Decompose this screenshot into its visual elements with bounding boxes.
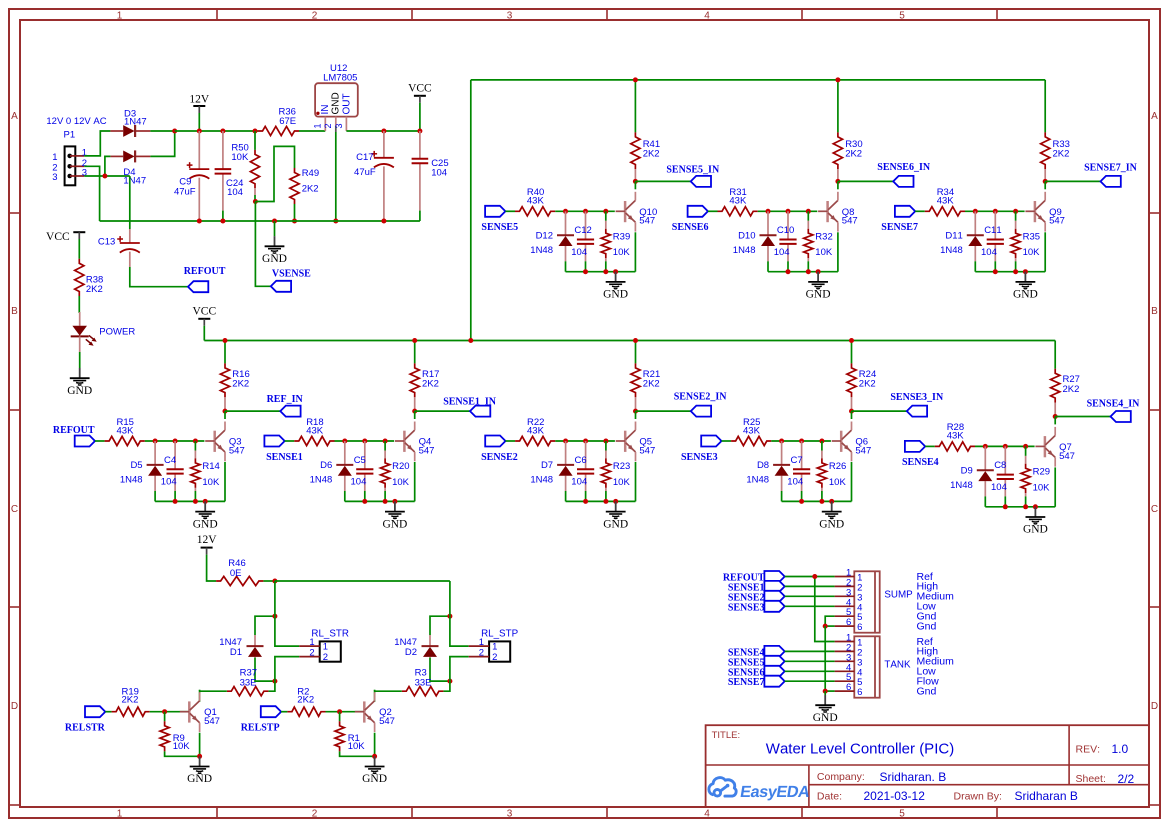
capacitor C7 (787, 441, 810, 501)
svg-text:2K2: 2K2 (297, 695, 314, 706)
junction diode (342, 439, 347, 444)
svg-text:SENSE3: SENSE3 (728, 602, 765, 613)
junction pin3/D4 (102, 174, 107, 179)
transistor Q2 (355, 692, 395, 732)
junction bias bottom (1023, 504, 1028, 509)
svg-text:C8: C8 (994, 460, 1006, 471)
svg-text:SENSE5: SENSE5 (481, 222, 518, 233)
junction bias bottom (193, 499, 198, 504)
svg-text:GND: GND (813, 712, 838, 724)
svg-text:EasyEDA: EasyEDA (739, 783, 812, 801)
resistor R27 (1051, 369, 1080, 417)
junction cap bottom (173, 499, 178, 504)
junction bias resistor (193, 439, 198, 444)
svg-text:43K: 43K (527, 425, 545, 436)
svg-text:104: 104 (774, 247, 790, 258)
net flag SENSE3_IN (890, 392, 944, 416)
wire flag to R19 (105, 711, 111, 713)
wire Q5 collector (635, 411, 637, 419)
svg-text:Gnd: Gnd (917, 620, 937, 632)
junction top bus R30 (835, 77, 840, 82)
junction R16 bottom (223, 409, 228, 414)
resistor R3 (402, 668, 444, 696)
wire SENSE5 to pin (785, 660, 835, 662)
resistor R22 (515, 417, 555, 446)
svg-text:43K: 43K (117, 425, 135, 436)
wire emitter bottom net (566, 271, 636, 273)
capacitor C9 (174, 131, 209, 221)
diode D5 (120, 441, 164, 501)
svg-text:GND: GND (1023, 524, 1048, 536)
wire D4 cathode riser (150, 131, 174, 156)
wire emitter bottom net (345, 500, 415, 502)
resistor R31 (718, 187, 758, 216)
ground GND Q5 (603, 501, 628, 530)
svg-text:REFOUT: REFOUT (53, 425, 95, 436)
svg-text:2: 2 (323, 652, 328, 663)
wire Q4 emitter (414, 462, 416, 501)
diode D3 (110, 109, 150, 138)
wire Q10 emitter (634, 232, 636, 271)
junction D1 top (272, 614, 277, 619)
wire D2 bottom (430, 668, 450, 681)
svg-text:547: 547 (842, 216, 858, 227)
svg-text:3: 3 (334, 124, 344, 129)
svg-text:REV:: REV: (1076, 743, 1101, 755)
resistor R14 (191, 441, 220, 501)
svg-text:67E: 67E (279, 116, 296, 127)
svg-text:1N47: 1N47 (124, 117, 147, 128)
wire R38 to LED (78, 296, 80, 313)
resistor R50 (231, 131, 259, 202)
wire base net (145, 440, 205, 442)
svg-text:D1: D1 (230, 647, 242, 658)
junction gnd stem (816, 269, 821, 274)
junction bias resistor (806, 209, 811, 214)
svg-text:33E: 33E (415, 677, 432, 688)
wire emitter bottom net (975, 271, 1045, 273)
svg-text:2K2: 2K2 (1063, 384, 1080, 395)
svg-text:D7: D7 (541, 460, 553, 471)
junction bias bottom (1013, 269, 1018, 274)
svg-text:1.0: 1.0 (1112, 742, 1129, 756)
svg-text:C4: C4 (164, 455, 176, 466)
svg-text:6: 6 (846, 617, 851, 628)
junction ref net (812, 574, 817, 579)
net flag SENSE3 connector-side (728, 601, 785, 614)
wire P1 pin2 to GND bus (84, 166, 99, 221)
junction bias resistor (603, 209, 608, 214)
svg-text:TITLE:: TITLE: (712, 730, 741, 741)
svg-text:RELSTR: RELSTR (65, 723, 106, 734)
svg-text:547: 547 (855, 445, 871, 456)
svg-text:LM7805: LM7805 (323, 73, 357, 84)
junction R24 bottom (849, 409, 854, 414)
transistor Q5 (616, 422, 656, 462)
svg-text:547: 547 (419, 445, 435, 456)
svg-text:104: 104 (571, 477, 587, 488)
svg-text:43K: 43K (743, 425, 761, 436)
svg-text:C11: C11 (984, 225, 1001, 236)
svg-text:SENSE4_IN: SENSE4_IN (1087, 399, 1141, 410)
svg-text:1: 1 (492, 642, 497, 653)
junction R17 bottom (412, 409, 417, 414)
svg-text:C: C (1151, 504, 1158, 515)
wire SENSE7 to pin (785, 680, 835, 682)
wire R16 top (224, 341, 226, 364)
ground GND led (67, 368, 92, 397)
wire relay top rail (275, 580, 450, 582)
svg-text:D: D (11, 701, 18, 712)
svg-text:SENSE7_IN: SENSE7_IN (1084, 163, 1138, 174)
svg-text:C12: C12 (574, 225, 591, 236)
connector SUMP (835, 568, 954, 634)
junction bus R16 (223, 338, 228, 343)
junction R30 bottom (835, 179, 840, 184)
wire flag to R31 (708, 210, 718, 212)
svg-text:C7: C7 (791, 455, 803, 466)
net flag RELSTR (65, 706, 106, 733)
svg-text:SENSE6_IN: SENSE6_IN (877, 162, 931, 173)
net flag SENSE6 connector-side (728, 666, 785, 679)
wire emitter bottom net (155, 500, 225, 502)
wire VSENSE drop (255, 202, 270, 287)
svg-text:10K: 10K (815, 247, 833, 258)
svg-text:Date:: Date: (817, 790, 842, 802)
svg-text:D8: D8 (757, 460, 769, 471)
capacitor C6 (571, 441, 594, 501)
junction D2 bottom (447, 679, 452, 684)
svg-text:12V: 12V (189, 94, 210, 106)
svg-text:12V 0 12V AC: 12V 0 12V AC (46, 116, 106, 127)
wire base net (335, 440, 395, 442)
wire Q10 collector (634, 181, 636, 189)
resistor R30 (833, 132, 862, 181)
transistor Q7 (1035, 427, 1075, 467)
junction C24 top (253, 129, 258, 134)
svg-text:10K: 10K (348, 741, 366, 752)
svg-text:D6: D6 (320, 460, 332, 471)
junction R46 out (272, 579, 277, 584)
resistor R26 (817, 441, 846, 501)
svg-text:104: 104 (787, 477, 803, 488)
junction gnd stem (613, 499, 618, 504)
svg-text:B: B (11, 306, 18, 317)
svg-text:4: 4 (704, 808, 710, 819)
junction cap (786, 209, 791, 214)
junction gnd tank (823, 689, 828, 694)
ground GND power-supply (262, 221, 287, 265)
junction R50 bottom / VSENSE node (253, 199, 258, 204)
resistor R49 (290, 168, 319, 221)
svg-text:547: 547 (1049, 216, 1065, 227)
svg-text:R20: R20 (392, 461, 409, 472)
wire R30 top (837, 80, 839, 132)
svg-text:2: 2 (312, 10, 318, 21)
net flag SENSE7 (881, 206, 918, 233)
svg-text:33E: 33E (240, 677, 257, 688)
svg-text:1: 1 (117, 10, 123, 21)
net flag SENSE2_IN (674, 392, 728, 417)
svg-text:43K: 43K (729, 196, 747, 207)
net flag SENSE7_IN (1084, 163, 1138, 187)
svg-text:SENSE1_IN: SENSE1_IN (443, 397, 497, 408)
svg-text:6: 6 (857, 687, 862, 698)
junction diode (983, 444, 988, 449)
net flag REFOUT (53, 425, 95, 447)
net flag SENSE6 (672, 206, 709, 233)
svg-text:12V: 12V (197, 534, 218, 546)
svg-text:D11: D11 (945, 230, 962, 241)
ground GND Q4 (382, 501, 407, 530)
svg-text:547: 547 (1059, 451, 1075, 462)
svg-text:2/2: 2/2 (1118, 772, 1135, 786)
svg-text:SENSE7: SENSE7 (881, 222, 918, 233)
junction C17 top (381, 129, 386, 134)
junction bias resistor (819, 439, 824, 444)
svg-text:2K2: 2K2 (422, 378, 439, 389)
wire SENSE4 to pin (785, 650, 835, 652)
svg-text:547: 547 (639, 445, 655, 456)
svg-text:Sridharan B: Sridharan B (1015, 789, 1078, 803)
svg-text:A: A (11, 111, 18, 122)
junction emitter Q1 (197, 754, 202, 759)
resistor R19 (112, 686, 150, 716)
connector RL_STR (299, 629, 349, 664)
wire flag to R34 (915, 210, 925, 212)
svg-text:D5: D5 (130, 460, 142, 471)
wire U12 OUT to VCC (346, 130, 420, 132)
ground GND Q1 (187, 756, 212, 785)
junction GND symbol (272, 219, 277, 224)
ground GND Q9 (1013, 272, 1038, 301)
junction cap (993, 209, 998, 214)
wire to flag SENSE6_IN (838, 180, 893, 182)
wire emitter bottom net (768, 271, 838, 273)
svg-text:SENSE2_IN: SENSE2_IN (674, 392, 728, 403)
junction diode (766, 209, 771, 214)
wire flag to R2 (281, 711, 287, 713)
junction cap bottom (583, 269, 588, 274)
wire SUMP pin6 gnd (825, 625, 834, 627)
capacitor C4 (161, 441, 184, 501)
svg-text:43K: 43K (947, 431, 965, 442)
junction emitter Q2 (372, 754, 377, 759)
net flag SENSE5 (481, 206, 518, 233)
wire base net (555, 210, 615, 212)
junction bias bottom (603, 499, 608, 504)
junction R33 bottom (1043, 179, 1048, 184)
resistor R29 (1021, 446, 1050, 506)
transistor Q4 (395, 422, 435, 462)
junction bias resistor (383, 439, 388, 444)
capacitor C11 (981, 211, 1004, 271)
svg-text:D: D (1151, 701, 1158, 712)
wire SENSE1 to pin (785, 585, 835, 587)
svg-text:0E: 0E (230, 568, 242, 579)
net flag SENSE2 connector-side (728, 591, 785, 604)
svg-text:Water Level Controller (PIC): Water Level Controller (PIC) (766, 740, 954, 757)
svg-text:10K: 10K (829, 477, 847, 488)
wire flag to R28 (925, 445, 935, 447)
svg-text:6: 6 (857, 622, 862, 633)
svg-text:1N48: 1N48 (120, 475, 143, 486)
ground GND Q10 (603, 272, 628, 301)
junction bias resistor (1023, 444, 1028, 449)
junction base Q2 (337, 709, 342, 714)
svg-text:Sridharan. B: Sridharan. B (880, 770, 947, 784)
capacitor C17 (354, 131, 394, 221)
wire Q3 emitter (224, 462, 226, 501)
wire R27 top (1054, 341, 1056, 369)
net flag SENSE4 (902, 441, 939, 468)
regulator U12 LM7805 (313, 63, 358, 132)
junction bias bottom (806, 269, 811, 274)
svg-text:VCC: VCC (192, 306, 216, 318)
svg-text:2021-03-12: 2021-03-12 (864, 789, 926, 803)
svg-text:R29: R29 (1033, 467, 1050, 478)
svg-text:REFOUT: REFOUT (184, 266, 226, 277)
wire SUMP pin1 to TANK pin1 (815, 577, 835, 642)
junction cap bottom (799, 499, 804, 504)
svg-text:104: 104 (571, 247, 587, 258)
wire GND bus (100, 220, 420, 222)
junction bias resistor (1013, 209, 1018, 214)
svg-text:4: 4 (704, 10, 710, 21)
title block (706, 725, 1149, 807)
power 12V relay (197, 534, 218, 581)
svg-text:1N48: 1N48 (746, 475, 769, 486)
resistor R40 (515, 187, 555, 216)
wire SENSE6 to pin (785, 670, 835, 672)
junction R21 bottom (633, 409, 638, 414)
wire VCC riser to top bus (470, 80, 472, 341)
wire to flag SENSE1_IN (415, 410, 470, 412)
wire top VCC bus (471, 79, 1045, 81)
net flag SENSE5 connector-side (728, 656, 785, 669)
net flag SENSE4_IN (1087, 399, 1141, 423)
transistor Q3 (205, 422, 245, 462)
svg-text:2: 2 (323, 124, 333, 129)
svg-text:10K: 10K (231, 152, 249, 163)
capacitor C5 (351, 441, 374, 501)
svg-text:R26: R26 (829, 461, 846, 472)
net flag SENSE5_IN (666, 165, 720, 187)
svg-text:GND: GND (67, 385, 92, 397)
net flag SENSE1_IN (443, 397, 497, 417)
resistor R34 (925, 187, 965, 216)
svg-text:2: 2 (479, 648, 484, 659)
junction bias bottom (383, 499, 388, 504)
svg-text:3: 3 (507, 808, 513, 819)
wire flag to R40 (505, 210, 515, 212)
svg-text:10K: 10K (202, 477, 220, 488)
wire to flag SENSE4_IN (1055, 416, 1110, 418)
capacitor C25 (412, 131, 449, 221)
wire pin3 riser to D4 (105, 156, 111, 176)
svg-text:C10: C10 (777, 225, 794, 236)
wire Q1 emitter (199, 733, 201, 757)
svg-text:104: 104 (227, 187, 243, 198)
wire flag to R18 (285, 440, 295, 442)
wire flag to R22 (506, 440, 516, 442)
svg-text:SENSE2: SENSE2 (481, 452, 518, 463)
svg-text:3: 3 (82, 168, 87, 179)
svg-text:SENSE5_IN: SENSE5_IN (666, 165, 720, 176)
wire 12V rail (175, 130, 258, 132)
svg-text:SENSE3_IN: SENSE3_IN (890, 392, 944, 403)
transistor Q6 (832, 422, 872, 462)
net flag REF_IN (267, 394, 304, 417)
svg-text:VCC: VCC (46, 231, 70, 243)
wire D1 top branch (255, 616, 275, 635)
wire VCC bus (204, 340, 1055, 342)
wire Q8 emitter (837, 232, 839, 271)
resistor R15 (105, 417, 145, 446)
led POWER indicator (71, 312, 136, 352)
junction bias bottom (603, 269, 608, 274)
svg-text:D12: D12 (536, 230, 553, 241)
svg-text:2K2: 2K2 (859, 378, 876, 389)
svg-text:RL_STP: RL_STP (481, 629, 518, 640)
wire Q9 collector (1044, 181, 1046, 189)
svg-text:2K2: 2K2 (86, 284, 103, 295)
junction cap (799, 439, 804, 444)
capacitor C24 (215, 131, 244, 221)
wire flag to R25 (722, 440, 732, 442)
wire emitter bottom net (782, 500, 852, 502)
svg-text:2K2: 2K2 (643, 378, 660, 389)
ground GND Q3 (193, 501, 218, 530)
wire Q7 emitter (1054, 467, 1056, 506)
wire base net (758, 210, 818, 212)
wire base net (975, 445, 1035, 447)
resistor R1 (335, 712, 375, 757)
resistor R39 (601, 211, 630, 271)
svg-text:GND: GND (1013, 289, 1038, 301)
junction U12 GND (333, 219, 338, 224)
junction D1 bottom (272, 679, 277, 684)
wire D1 bottom (255, 668, 275, 681)
wire to flag SENSE5_IN (635, 180, 690, 182)
diode D10 (733, 211, 777, 271)
svg-text:43K: 43K (937, 196, 955, 207)
svg-text:P1: P1 (64, 130, 76, 141)
power VCC top (408, 83, 432, 131)
ground GND Q6 (819, 501, 844, 530)
capacitor C10 (774, 211, 797, 271)
wire D3 cathode to node (150, 130, 174, 132)
svg-text:1N48: 1N48 (950, 480, 973, 491)
svg-text:1N48: 1N48 (733, 245, 756, 256)
svg-text:RL_STR: RL_STR (311, 629, 349, 640)
wire R33 top (1044, 80, 1046, 132)
wire D2 top branch (430, 616, 450, 635)
junction R27 bottom (1053, 414, 1058, 419)
junction cap (583, 439, 588, 444)
net flag SENSE2 (481, 436, 518, 463)
svg-text:TANK: TANK (884, 660, 911, 671)
net flag REFOUT connector-side (723, 571, 785, 584)
svg-text:2K2: 2K2 (643, 149, 660, 160)
wire R3 to collector (443, 681, 450, 691)
resistor R38 (75, 259, 104, 296)
junction R49 bottom (292, 219, 297, 224)
svg-text:1N48: 1N48 (530, 245, 553, 256)
wire emitter bottom net (566, 500, 636, 502)
junction cap bottom (993, 269, 998, 274)
svg-text:2K2: 2K2 (1053, 149, 1070, 160)
